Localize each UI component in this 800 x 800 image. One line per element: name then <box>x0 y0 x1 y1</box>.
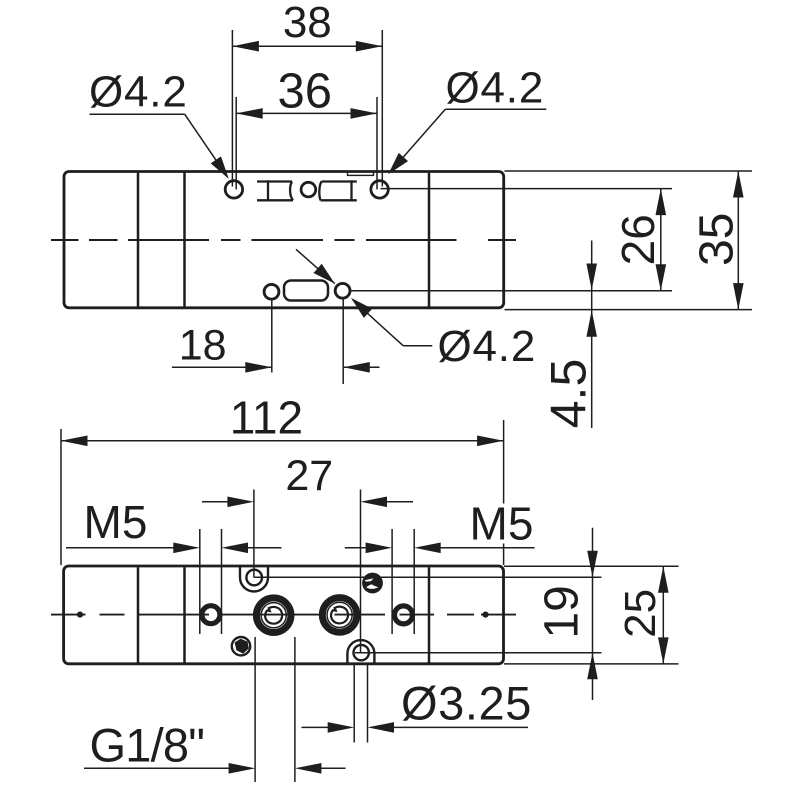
thin rectangle on top edge <box>348 172 374 176</box>
dim G1/8 line right tail <box>321 767 346 769</box>
dim 35 arrow top <box>733 171 744 198</box>
dim M5 right ext line 2 <box>413 529 415 634</box>
dim 35 line <box>737 171 739 310</box>
bottom view internal vertical line 2 <box>183 567 186 662</box>
dim 4.5 arrow down <box>586 264 597 291</box>
svg-text:G1/8": G1/8" <box>90 719 205 772</box>
svg-text:19: 19 <box>536 585 589 638</box>
dim 38 line <box>232 45 382 47</box>
dim 112 extension line right lower <box>503 544 505 566</box>
dim O3.25 line right tail <box>394 726 529 728</box>
dim 25 line <box>662 566 664 664</box>
dim 36 line <box>236 112 377 114</box>
dim 4.5 arrow up <box>586 310 597 337</box>
dim 27 line left tail <box>202 501 228 503</box>
dim 18 line left tail <box>172 366 272 368</box>
svg-text:Ø4.2: Ø4.2 <box>89 67 188 116</box>
dim 112 arrow right <box>477 436 504 447</box>
center dot left <box>77 612 83 618</box>
dim O3.25 arrow left <box>328 722 355 733</box>
svg-text:26: 26 <box>612 214 664 265</box>
dim 112 line <box>61 440 504 442</box>
dim 25 arrow bottom <box>658 637 669 664</box>
top face slot symbol right <box>319 180 356 201</box>
top view body outline <box>64 172 504 308</box>
dim 112 arrow left <box>61 436 88 447</box>
dim 27 extension line right <box>360 490 362 653</box>
pilot hole bottom-right (O4.2) <box>335 283 350 298</box>
svg-text:27: 27 <box>285 452 333 500</box>
dim 38 arrow right <box>356 41 383 52</box>
M5 port left <box>202 606 220 624</box>
slot on bottom of top view <box>284 281 328 301</box>
pilot pocket top (U shape) <box>240 567 268 592</box>
svg-text:35: 35 <box>691 213 744 266</box>
bottom view internal vertical line 1 <box>137 567 140 662</box>
dim 18 extension line left <box>271 300 273 373</box>
dim 36 extension line right <box>376 97 378 189</box>
dim M5 right arrow right <box>414 543 441 554</box>
dim 27 line right tail <box>387 501 414 503</box>
top view internal vertical line 3 <box>428 173 431 307</box>
dim M5 left line tail left <box>66 547 174 549</box>
dim 26 arrow bottom <box>656 264 667 291</box>
svg-text:38: 38 <box>283 0 332 47</box>
dim G1/8 arrow left <box>229 763 256 774</box>
svg-text:M5: M5 <box>470 498 534 550</box>
dim 25 arrow top <box>658 566 669 593</box>
ext line bottom hole right <box>350 290 672 292</box>
svg-text:112: 112 <box>230 391 303 443</box>
dim M5 right ext line 1 <box>391 529 393 634</box>
dim 38 extension line right <box>381 30 383 187</box>
dim O3.25 line left tail <box>302 726 329 728</box>
dim M5 left arrow right <box>222 543 249 554</box>
svg-text:Ø4.2: Ø4.2 <box>438 322 537 371</box>
ext line bottom edge right <box>505 309 753 311</box>
dim 18 extension line right <box>342 299 344 384</box>
label O4.2 bottom-right leader upper arrow <box>313 264 338 289</box>
pilot pocket bottom arch <box>347 640 374 664</box>
dim M5 left ext line 2 <box>221 529 223 634</box>
dim 4.5 line <box>591 241 593 429</box>
M5 port right <box>395 606 413 624</box>
dim G1/8 ext line left <box>254 637 256 782</box>
svg-text:4.5: 4.5 <box>541 359 597 429</box>
dim M5 right line tail left <box>345 547 366 549</box>
dim 26 arrow top <box>656 189 667 216</box>
top view internal vertical line 2 <box>183 173 186 307</box>
dim 27 arrow left <box>227 497 254 508</box>
dim G1/8 arrow right <box>295 763 322 774</box>
ext line bottom body bottom right <box>504 663 679 665</box>
dim 27 arrow right <box>361 497 388 508</box>
label O4.2 bottom-right leader lower arrow <box>347 293 372 318</box>
dim 19 line <box>592 528 594 700</box>
ext line top edge right <box>505 170 753 172</box>
label O4.2 top-right leader arrow <box>384 153 408 178</box>
dim 112 extension line left <box>60 429 62 565</box>
dim 38 extension line left <box>231 30 233 187</box>
bottom view horizontal center line <box>51 614 516 616</box>
mounting hole right (O4.2) <box>371 181 388 198</box>
bottom view internal vertical line 3 <box>428 567 431 662</box>
label O4.2 top-left leader <box>185 114 227 175</box>
svg-text:M5: M5 <box>84 496 148 548</box>
dim M5 left line tail right <box>248 547 282 549</box>
dim 36 extension line left <box>235 97 237 189</box>
top face circle symbol <box>301 182 316 197</box>
dim G1/8 ext line right <box>294 637 296 782</box>
dim O3.25 ext line left <box>353 664 355 743</box>
ext line pilot bottom right <box>355 652 602 654</box>
dim 18 arrow left <box>245 362 272 373</box>
dim 19 arrow down <box>587 551 598 578</box>
orifice circle lower-left <box>232 637 250 655</box>
bottom view body outline <box>64 566 504 664</box>
G1/8 port right (A) <box>322 598 357 633</box>
top view horizontal center line <box>51 239 516 241</box>
pilot hole top circle <box>246 570 262 586</box>
svg-text:25: 25 <box>616 589 665 638</box>
label O4.2 top-left leader arrow <box>211 156 234 182</box>
dim M5 right arrow left <box>366 543 393 554</box>
ext line bottom body top right <box>504 565 679 567</box>
dim O3.25 ext line right <box>367 664 369 743</box>
dim 27 extension line left <box>253 490 255 578</box>
pilot hole bottom-left <box>264 284 279 299</box>
G1/8 port left (P) <box>256 598 291 633</box>
orifice filled circle upper-right <box>362 573 383 594</box>
label O4.2 top-right underline <box>445 108 546 110</box>
dim 36 arrow left <box>236 108 263 119</box>
dim G1/8 line left tail <box>84 767 229 769</box>
dim 18 arrow right <box>343 362 370 373</box>
dim O3.25 arrow right <box>368 722 395 733</box>
dim 36 arrow right <box>351 108 378 119</box>
dim 38 arrow left <box>232 41 259 52</box>
svg-text:36: 36 <box>277 65 332 119</box>
label O4.2 bottom-right h-segment <box>403 345 432 347</box>
label O4.2 top-left underline <box>90 113 185 115</box>
ext line hole centers right <box>381 188 673 190</box>
dim M5 right line tail right <box>440 547 534 549</box>
dim M5 left arrow left <box>173 543 200 554</box>
label O4.2 bottom-right leader upper <box>296 249 335 283</box>
dim 19 arrow up <box>587 653 598 680</box>
mounting hole left (O4.2) <box>225 181 242 198</box>
label O4.2 bottom-right leader lower <box>353 300 404 346</box>
center dot right <box>482 612 488 618</box>
svg-text:Ø4.2: Ø4.2 <box>446 64 545 113</box>
dim 26 line <box>660 189 662 291</box>
dim 18 line right tail <box>343 366 379 368</box>
svg-text:Ø3.25: Ø3.25 <box>401 677 532 730</box>
dim 35 arrow bottom <box>733 283 744 310</box>
pilot hole bottom circle (O3.25) <box>354 645 369 660</box>
svg-text:18: 18 <box>179 322 227 370</box>
top face slot symbol left <box>257 180 293 201</box>
ext line pilot top right <box>254 576 601 578</box>
top view internal vertical line 1 <box>137 173 140 307</box>
dim 112 extension line right upper <box>503 420 505 504</box>
dim M5 left ext line 1 <box>199 529 201 634</box>
label O4.2 top-right leader <box>390 109 445 172</box>
